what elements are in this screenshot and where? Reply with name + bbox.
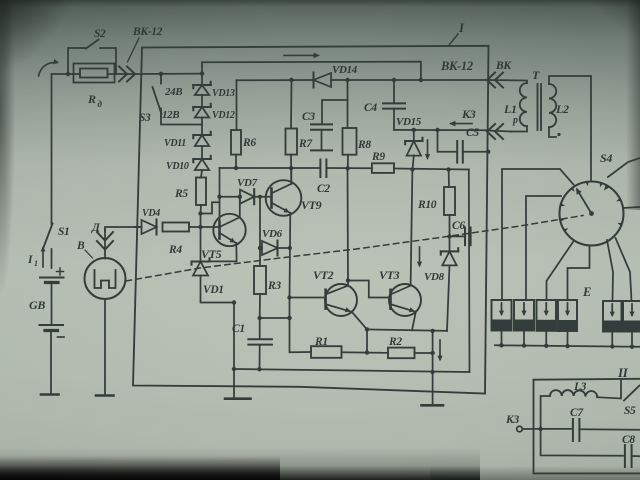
- svg-text:VD13: VD13: [212, 88, 235, 99]
- resistor R5: [196, 178, 206, 206]
- battery GB lead: [51, 284, 53, 325]
- junction emitter rail left: [232, 367, 236, 371]
- wire VD11-VD10: [201, 146, 203, 159]
- wire R10 bottom: [449, 215, 451, 251]
- frame I border: [133, 46, 489, 394]
- svg-text:R10: R10: [417, 199, 437, 211]
- junction rail B railA: [419, 78, 423, 82]
- svg-text:C6: C6: [452, 220, 465, 232]
- svg-text:C4: C4: [364, 102, 377, 114]
- battery GB minus sign: [58, 336, 65, 338]
- svg-text:VD7: VD7: [237, 177, 258, 189]
- svg-text:R4: R4: [168, 244, 182, 256]
- wire 168 right segment: [394, 169, 469, 170]
- junction C6 tap: [447, 234, 451, 238]
- wire R7 bottom to VT9 collector: [290, 155, 292, 184]
- wire K3 chevron to frame: [489, 131, 511, 132]
- svg-text:C3: C3: [302, 111, 315, 123]
- wire rail B right: [331, 79, 489, 81]
- distributor rotor arm: [577, 190, 592, 214]
- plug common rail: [495, 345, 640, 347]
- transistor VT2 emitter: [327, 305, 352, 312]
- resistor R4: [163, 223, 190, 232]
- svg-text:К3: К3: [461, 107, 476, 121]
- svg-text:C2: C2: [317, 183, 330, 195]
- transistor VT3 collector: [392, 286, 411, 294]
- arrow beside VD8: [419, 247, 421, 265]
- plug wire 6: [616, 238, 632, 301]
- junction VT2 collector coupling: [346, 278, 350, 282]
- spark plug 2: [514, 300, 534, 331]
- wire 168 mid segment: [326, 167, 372, 169]
- battery GB cell1 long plate: [40, 277, 64, 279]
- contact arrowheads: [563, 228, 569, 232]
- zener VD8: [442, 251, 456, 265]
- capacitor C4 bottom lead: [393, 109, 395, 130]
- battery chassis ground: [41, 393, 59, 396]
- transistor VT2 circle: [325, 284, 357, 316]
- capacitor C2: [319, 160, 321, 178]
- wire R2 right: [415, 352, 433, 354]
- zener VD11: [195, 135, 209, 146]
- svg-text:VD6: VD6: [262, 228, 283, 240]
- svg-text:S3: S3: [139, 112, 151, 124]
- wire K3 to node: [522, 428, 540, 430]
- emitter link line: [367, 329, 447, 330]
- wire chevron to sensor: [104, 229, 106, 259]
- svg-text:12В: 12В: [162, 109, 179, 121]
- wire R8 bottom: [347, 155, 349, 169]
- junction R2 rail: [430, 370, 434, 374]
- junction K3 node: [538, 427, 542, 431]
- diode VD4: [142, 220, 157, 234]
- capacitor C1 bottom lead: [259, 345, 261, 370]
- wire R3 bottom: [259, 294, 261, 318]
- wire through Rd: [68, 73, 80, 75]
- switch S3 contact 12V: [160, 109, 162, 118]
- junction VD15 bottom: [410, 167, 414, 171]
- wire right branch up: [468, 170, 471, 373]
- inductor L3 winding: [550, 390, 597, 397]
- junction R6 bottom: [234, 166, 238, 170]
- wire chain top segment: [201, 62, 203, 85]
- wire R4 to base: [189, 226, 219, 228]
- wire S4 top right exit: [608, 158, 640, 177]
- capacitor C5: [456, 141, 458, 163]
- connector BK chevrons: [495, 73, 503, 88]
- transistor VT5 circle: [213, 214, 245, 246]
- wire S3 12V tap to chain: [161, 117, 202, 125]
- svg-text:VD8: VD8: [424, 271, 445, 283]
- spark plug 5: [603, 301, 622, 332]
- distributor rotation arrow: [604, 185, 609, 191]
- wire step R5 to base node: [201, 202, 220, 213]
- wire R6 bottom: [235, 155, 237, 168]
- capacitor C4: [383, 102, 405, 104]
- sensor B inner symbol: [95, 270, 116, 288]
- svg-text:S4: S4: [600, 151, 612, 165]
- resistor R1: [311, 346, 342, 358]
- connector D chevrons down: [97, 232, 113, 241]
- capacitor C5 branch: [438, 130, 456, 152]
- switch S2: [68, 48, 86, 74]
- battery GB cell1 short plate: [46, 281, 59, 284]
- mechanical link dashed line: [126, 216, 583, 282]
- battery GB bottom lead: [50, 332, 52, 394]
- capacitor C6: [464, 228, 466, 246]
- wire K3 line: [394, 129, 489, 131]
- svg-text:24В: 24В: [164, 86, 182, 98]
- diode VD14: [314, 73, 332, 87]
- svg-text:R1: R1: [314, 336, 328, 348]
- wire VD7 to VT9 base: [254, 196, 271, 198]
- junction C1 rail: [257, 367, 261, 371]
- junction S3 tap: [159, 72, 163, 76]
- distributor S4 circle: [560, 182, 624, 246]
- junction rail B R8: [345, 78, 349, 82]
- capacitor C8: [624, 445, 626, 467]
- capacitor C8 wire right: [632, 455, 640, 457]
- arrow K3 direction: [451, 123, 472, 125]
- wire VD8 to emitter line: [447, 265, 450, 330]
- battery GB cell2 short plate: [45, 329, 58, 332]
- transistor VT5 collector: [221, 218, 240, 227]
- wire VD15 to wire168: [413, 156, 414, 170]
- wire L3 right: [597, 380, 621, 399]
- connector K3 chevrons: [495, 124, 503, 139]
- wire rail B corner to R6: [236, 80, 238, 130]
- svg-text:VD4: VD4: [142, 208, 160, 219]
- junction rail B C4: [392, 78, 396, 82]
- junction R1 R2 node: [365, 350, 369, 354]
- junction K3 VD15: [412, 128, 416, 132]
- wire coupling to VT3 base: [348, 281, 391, 298]
- junction R10 top: [446, 167, 450, 171]
- resistor R2: [388, 348, 415, 359]
- wire S4 right exit: [624, 207, 640, 208]
- junction emitter link left: [365, 327, 369, 331]
- svg-text:1: 1: [34, 259, 38, 268]
- resistor R8: [343, 128, 357, 155]
- junction zener chain top: [200, 71, 204, 75]
- wire rail B left: [237, 79, 314, 81]
- junction R8 bottom: [346, 166, 350, 170]
- diode VD6: [262, 241, 278, 255]
- transistor VT5 emitter: [221, 234, 237, 244]
- svg-text:S1: S1: [58, 226, 69, 238]
- wire VD12-VD11 with 12V tap: [201, 118, 203, 136]
- svg-text:ВК: ВК: [495, 60, 512, 72]
- zener VD10: [195, 159, 209, 170]
- capacitor C7: [572, 419, 574, 441]
- junction VT5 collector node: [238, 195, 242, 199]
- wire base node vertical: [219, 168, 221, 222]
- capacitor C4 top lead: [393, 80, 395, 103]
- wire VD1 to ground rail: [201, 276, 235, 303]
- svg-text:R7: R7: [298, 138, 313, 150]
- resistor Rd: [80, 69, 108, 78]
- svg-text:L1: L1: [503, 102, 517, 116]
- wire VT3 collector long: [411, 169, 413, 285]
- arrow beside VD15: [427, 140, 429, 158]
- transistor VT9 circle: [266, 180, 302, 216]
- junction VT2 base VT9emitter: [287, 295, 291, 299]
- junction VD7 anode: [217, 195, 221, 199]
- svg-text:C8: C8: [622, 434, 635, 446]
- wire R3 to base link: [260, 317, 290, 319]
- capacitor C3 end bar: [311, 149, 332, 151]
- svg-text:R3: R3: [267, 280, 281, 292]
- capacitor C7 wire right: [579, 428, 640, 431]
- svg-text:T: T: [532, 68, 540, 82]
- wire VD13-VD12: [201, 95, 203, 107]
- transistor VT3 circle: [389, 284, 421, 316]
- svg-text:VT5: VT5: [201, 247, 222, 261]
- zener VD15: [413, 130, 415, 141]
- connector BK-12 chevrons: [119, 67, 127, 82]
- left edge shading: [0, 0, 16, 340]
- junction VD6 anode tap: [258, 246, 262, 250]
- terminal K3 bottom: [517, 426, 523, 432]
- svg-text:VD10: VD10: [166, 161, 189, 172]
- inductor L1 winding: [520, 83, 527, 126]
- transistor VT3 base bar: [389, 290, 392, 309]
- svg-text:VD15: VD15: [396, 116, 422, 128]
- sensor chassis ground: [96, 394, 114, 397]
- wire VT2 base: [290, 297, 326, 299]
- plug wire 2: [526, 196, 561, 300]
- svg-text:VT2: VT2: [313, 268, 334, 282]
- capacitor C7 wire left: [541, 428, 571, 430]
- transistor VT2 base bar: [324, 290, 327, 309]
- current arrow I1: [42, 248, 44, 267]
- wire ground rail vertical: [233, 303, 235, 399]
- svg-text:К3: К3: [505, 414, 519, 426]
- junction R2 right: [430, 351, 434, 355]
- zener VD12: [195, 107, 209, 118]
- transformer T core: [537, 84, 539, 130]
- capacitor C3: [311, 123, 332, 125]
- right edge shading: [626, 0, 640, 210]
- junction R1 base link: [287, 316, 291, 320]
- capacitor C1: [248, 338, 272, 340]
- spark plug 6: [623, 301, 640, 332]
- sensor bottom lead: [104, 299, 106, 395]
- svg-text:L3: L3: [573, 381, 587, 393]
- svg-text:R2: R2: [388, 336, 402, 348]
- resistor R6: [231, 130, 241, 155]
- spark plug 4: [558, 300, 577, 331]
- junction K3 C5: [435, 128, 439, 132]
- junction R3 bottom: [258, 316, 262, 320]
- capacitor C3 bridge: [322, 100, 348, 124]
- capacitor C8 branch: [541, 429, 623, 456]
- resistor R7: [286, 129, 298, 155]
- junction base link: [287, 316, 291, 320]
- transistor VT2 collector: [327, 286, 349, 294]
- junction R7 wire168: [289, 166, 293, 170]
- emitter rail: [234, 369, 470, 372]
- svg-text:L2: L2: [555, 102, 569, 116]
- transistor VT9 base bar: [270, 189, 273, 208]
- svg-text:C7: C7: [570, 407, 584, 419]
- resistor R10: [444, 187, 455, 215]
- wire L1 bottom: [511, 126, 527, 131]
- svg-text:GB: GB: [29, 298, 45, 312]
- capacitor C3 lower lead: [321, 130, 323, 151]
- svg-text:C5: C5: [466, 127, 479, 139]
- svg-text:I: I: [27, 254, 33, 266]
- block II border: [534, 379, 640, 474]
- wire VD6 node vertical: [259, 197, 261, 266]
- svg-text:E: E: [582, 285, 591, 299]
- junction rail B R7: [289, 78, 293, 82]
- switch S1: [51, 223, 53, 225]
- battery GB cell2 long plate: [40, 324, 64, 326]
- switch S3 contact 24V: [160, 74, 162, 84]
- svg-text:R6: R6: [242, 137, 256, 149]
- wire C5 right: [463, 151, 488, 153]
- zener VD1: [193, 262, 208, 276]
- svg-text:VD14: VD14: [332, 64, 358, 76]
- bottom dark band: [0, 448, 480, 480]
- switch S3 blade: [153, 87, 162, 114]
- battery GB plus sign: [57, 271, 64, 273]
- plug wire 5: [607, 240, 613, 301]
- plug wire 3: [547, 241, 575, 301]
- wire VD10 to R5: [201, 170, 202, 178]
- sensor B circle: [85, 258, 126, 299]
- svg-text:VT9: VT9: [301, 198, 322, 212]
- junction R5 bottom: [198, 211, 202, 215]
- svg-text:R5: R5: [174, 188, 188, 200]
- chassis ground right: [422, 404, 444, 407]
- wire L2 top to S4: [549, 76, 591, 182]
- junction VD6 anode: [258, 195, 262, 199]
- svg-text:VD12: VD12: [212, 110, 235, 121]
- wire D-line corner: [105, 227, 141, 231]
- wire VD6 to emitter line: [278, 247, 290, 249]
- resistor R3: [254, 266, 266, 294]
- transistor VT3 emitter: [392, 305, 416, 312]
- wire R1 left: [290, 298, 312, 353]
- wire L2 bottom stub: [549, 127, 556, 137]
- svg-text:ВК-12: ВК-12: [440, 59, 473, 73]
- wire node to S2/Rd block: [66, 72, 70, 76]
- wire BK to L1: [489, 80, 527, 83]
- svg-text:VT3: VT3: [379, 268, 400, 282]
- chassis ground center: [225, 397, 251, 400]
- transistor VT9 emitter: [272, 203, 290, 213]
- wire D-line down to VD1: [200, 227, 202, 262]
- inductor L2 winding: [549, 84, 556, 127]
- wire R7 top: [290, 80, 293, 129]
- wire VD4 left: [135, 226, 142, 228]
- arrow beside R2 node: [439, 340, 441, 359]
- svg-text:C1: C1: [232, 323, 245, 335]
- svg-text:R: R: [87, 92, 96, 106]
- spark plug 3: [537, 300, 557, 331]
- plug rail junctions: [499, 343, 503, 347]
- svg-text:S5: S5: [624, 405, 636, 417]
- wire R10 top lead: [448, 170, 450, 188]
- wire rail A: [202, 62, 421, 80]
- wire R5 junction down to D-line: [200, 214, 202, 228]
- junction VD6 cathode: [288, 246, 292, 250]
- wire R8 top: [347, 80, 349, 128]
- wire VT2 emitter down: [366, 329, 368, 352]
- svg-text:I: I: [458, 20, 465, 35]
- wire BK-12 to zener chain node: [136, 73, 203, 75]
- zener VD13: [195, 85, 209, 95]
- ballast resistor Rd enclosure: [74, 64, 115, 83]
- wire R1R2 link: [367, 352, 388, 354]
- svg-text:В: В: [76, 240, 85, 252]
- svg-text:II: II: [617, 365, 629, 380]
- svg-text:S2: S2: [94, 28, 106, 40]
- capacitor C1 top lead: [259, 318, 261, 339]
- junction D-line: [198, 225, 202, 229]
- svg-text:VD11: VD11: [164, 138, 186, 149]
- svg-text:R9: R9: [371, 151, 385, 163]
- direction arrow on rail A: [284, 54, 317, 56]
- plug wire 1: [502, 169, 574, 300]
- spark plug 1: [492, 300, 512, 331]
- diode VD7: [240, 190, 254, 204]
- svg-text:р: р: [512, 115, 518, 126]
- switch S5 blade: [624, 386, 640, 401]
- junction emitter link right: [430, 329, 434, 333]
- wire left rail from node: [52, 74, 69, 223]
- inductor L3 branch: [541, 396, 550, 429]
- resistor R9: [372, 163, 394, 173]
- wire R1 right: [342, 351, 368, 353]
- svg-text:ВК-12: ВК-12: [132, 26, 163, 38]
- wire R2 node vertical: [432, 331, 434, 405]
- transistor VT9 collector: [272, 184, 291, 193]
- transistor VT5 base bar: [218, 222, 221, 239]
- junction C5 frame wire: [486, 150, 490, 154]
- plug wire 4: [568, 246, 590, 301]
- curved arrow to supply node: [39, 62, 58, 76]
- wire R5 bottom: [200, 205, 203, 214]
- wire VD7 anode link: [220, 196, 241, 198]
- svg-text:д: д: [98, 99, 103, 109]
- svg-text:VD1: VD1: [203, 284, 224, 296]
- svg-text:R8: R8: [357, 139, 371, 151]
- wire C6 link: [450, 235, 464, 237]
- wire 168 left segment: [220, 167, 321, 169]
- top edge shading: [0, 0, 640, 7]
- junction ground rail top: [232, 300, 236, 304]
